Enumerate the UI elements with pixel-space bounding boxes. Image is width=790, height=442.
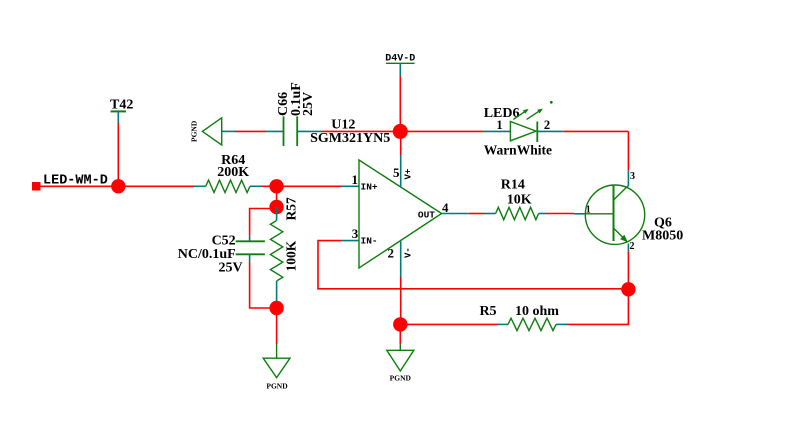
- svg-text:25V: 25V: [301, 92, 316, 116]
- wire: op-amp output to R14: [469, 213, 484, 215]
- LED6 anode pin stub: [483, 130, 510, 132]
- wire: junction down to ground: [399, 324, 401, 344]
- resistor R64 right pin stub: [250, 185, 262, 187]
- svg-text:1: 1: [496, 118, 502, 132]
- svg-text:100K: 100K: [284, 240, 299, 271]
- junction node at T42 / LED-WM-D: [111, 179, 125, 193]
- LED6 cathode pin stub: [537, 130, 563, 132]
- svg-text:25V: 25V: [218, 261, 242, 276]
- junction node on power rail: [393, 124, 408, 139]
- svg-text:R14: R14: [501, 177, 525, 192]
- transistor Q6 emitter pin stub: [627, 244, 629, 252]
- LED6 cathode bar: [536, 122, 538, 143]
- wire: LED6 cathode to collector rail: [564, 130, 629, 132]
- wire: emitter junction down to R5: [567, 289, 628, 324]
- transistor Q6 base pin stub: [574, 213, 586, 215]
- resistor R14 left pin stub: [484, 213, 496, 215]
- op-amp U12 pin 4 stub (OUT): [442, 213, 469, 215]
- wire: LED-WM-D square to R64: [40, 185, 195, 187]
- ground PGND triangle (bottom left): [263, 358, 290, 377]
- stray green dot near LED6: [550, 101, 553, 104]
- svg-text:PGND: PGND: [190, 120, 199, 142]
- transistor Q6 base line inside: [586, 213, 614, 215]
- op-amp U12 pin 5 stub (V+): [400, 155, 402, 187]
- resistor R57 top pin stub: [276, 207, 278, 221]
- capacitor C52 top pin stub: [249, 236, 251, 242]
- svg-text:V-: V-: [404, 247, 414, 258]
- svg-text:2: 2: [630, 241, 635, 252]
- op-amp U12 pin 3 stub (IN-): [341, 240, 359, 242]
- svg-text:4: 4: [442, 200, 449, 215]
- ground PGND stub (bottom middle): [399, 344, 401, 350]
- wire: T42 down to input net: [117, 123, 119, 186]
- svg-text:IN+: IN+: [361, 182, 378, 193]
- resistor R57 zigzag body (vertical): [270, 221, 282, 282]
- wire: LED cathode rail down to collector: [627, 131, 629, 170]
- svg-text:IN-: IN-: [361, 235, 378, 246]
- testpoint T42 pin stub: [117, 111, 119, 123]
- capacitor C52 bottom plate: [236, 253, 265, 255]
- svg-text:PGND: PGND: [266, 382, 288, 391]
- wire: RC branch to ground: [276, 308, 278, 344]
- junction node top of R57/C52: [269, 200, 283, 214]
- resistor R14 zigzag body: [496, 207, 539, 219]
- wire: R5 to ground junction: [400, 323, 497, 325]
- svg-text:10K: 10K: [507, 192, 532, 207]
- svg-text:2: 2: [388, 246, 395, 261]
- svg-text:M8050: M8050: [642, 229, 683, 244]
- resistor R14 right pin stub: [539, 213, 547, 215]
- junction node at V- / R5 / ground: [393, 317, 407, 331]
- resistor R5 right pin stub: [556, 323, 567, 325]
- svg-text:V+: V+: [404, 169, 414, 180]
- wire: feedback from emitter to IN-: [318, 241, 628, 289]
- LED6 emission arrow 2: [527, 110, 542, 120]
- svg-text:2: 2: [544, 118, 550, 132]
- svg-text:5: 5: [393, 165, 400, 180]
- svg-text:WarnWhite: WarnWhite: [484, 143, 552, 158]
- op-amp U12 pin 2 stub (V-): [400, 241, 402, 277]
- transistor Q6 circle body: [585, 185, 644, 244]
- wire: emitter down to junction: [627, 251, 629, 289]
- wire: PGND to C66: [235, 130, 266, 132]
- svg-text:3: 3: [352, 226, 359, 241]
- capacitor C66 right pin stub: [297, 130, 322, 132]
- junction node bottom of R57/C52: [269, 301, 283, 315]
- testpoint T42 bar: [111, 110, 126, 112]
- wire: pin 5 to power rail: [400, 138, 402, 155]
- wire: junction down to RC branch: [276, 186, 278, 207]
- svg-text:200K: 200K: [217, 165, 249, 180]
- capacitor C52 bottom pin stub: [249, 254, 251, 262]
- junction node at R64 output: [269, 179, 283, 193]
- resistor R57 bottom pin stub: [276, 281, 278, 308]
- capacitor C66 left plate: [283, 116, 285, 146]
- transistor Q6 emitter arrowhead: [620, 235, 628, 243]
- ground PGND triangle (bottom middle): [387, 350, 414, 371]
- wire: D4V-D down to rail: [399, 76, 401, 131]
- wire: top of C52 branch: [250, 209, 277, 236]
- LED6 emission arrow 1: [513, 110, 527, 120]
- svg-text:10 ohm: 10 ohm: [515, 304, 559, 319]
- transistor Q6 emitter diagonal: [614, 228, 627, 241]
- op-amp U12 pin 1 stub (IN+): [341, 185, 359, 187]
- LED6 emission arrow 2 head: [537, 109, 543, 114]
- power symbol D4V-D pin stub: [399, 63, 401, 76]
- LED6 emission arrow 1 head: [523, 109, 529, 114]
- wire: R64 to junction and op-amp IN+: [262, 185, 342, 187]
- transistor Q6 collector pin stub: [627, 170, 629, 186]
- LED6 triangle: [510, 122, 536, 141]
- wire: power rail to LED6: [400, 130, 483, 132]
- ground PGND triangle (left, near C66): [202, 118, 221, 145]
- transistor Q6 base bar: [613, 185, 615, 241]
- svg-text:R5: R5: [479, 304, 496, 319]
- svg-text:OUT: OUT: [418, 209, 435, 220]
- off-page connector square for net LED-WM-D: [32, 182, 41, 191]
- op-amp U12 triangle body: [359, 160, 442, 268]
- svg-text:SGM321YN5: SGM321YN5: [310, 131, 390, 146]
- ground PGND pin stub (left): [222, 130, 235, 132]
- wire: C66 to power junction: [322, 130, 400, 132]
- svg-text:R57: R57: [284, 197, 299, 220]
- wire: pin 2 down to ground junction: [400, 277, 402, 324]
- power symbol D4V-D bar: [386, 62, 415, 64]
- resistor R64 zigzag body: [206, 180, 250, 192]
- capacitor C52 top plate: [236, 240, 265, 242]
- svg-text:PGND: PGND: [390, 374, 412, 383]
- resistor R5 zigzag body: [508, 318, 556, 330]
- resistor R64 left pin stub: [194, 185, 206, 187]
- junction node at emitter / feedback: [621, 282, 635, 296]
- svg-text:3: 3: [630, 171, 635, 182]
- capacitor C66 right plate: [296, 116, 298, 146]
- resistor R5 left pin stub: [497, 323, 508, 325]
- wire: R14 to Q6 base: [546, 213, 574, 215]
- wire: bottom of C52 branch: [250, 262, 277, 308]
- svg-text:T42: T42: [110, 98, 133, 113]
- ground PGND stub (bottom left): [276, 344, 278, 358]
- transistor Q6 collector diagonal: [614, 186, 629, 201]
- capacitor C66 left pin stub: [266, 130, 284, 132]
- svg-text:1: 1: [352, 172, 359, 187]
